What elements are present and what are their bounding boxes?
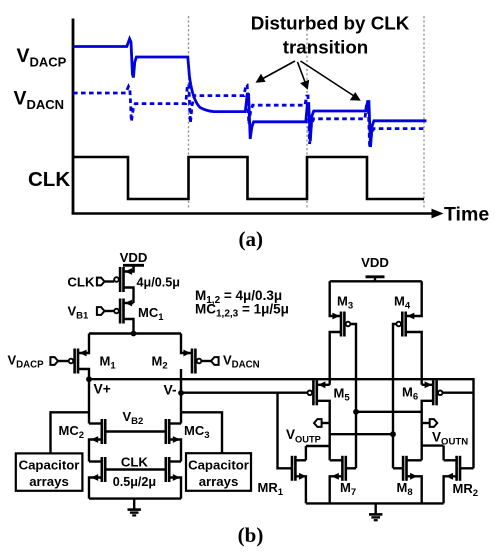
- waveform CLK (black): [73, 157, 424, 199]
- wire right CLK-NMOS drain stub: [169, 460, 181, 462]
- wire M1 drain to V+: [78, 369, 89, 379]
- wire tail node horizontal: [89, 332, 181, 334]
- wire MC1 drain to tail node: [124, 319, 134, 334]
- junction node V+: [86, 376, 92, 382]
- wire VDD stem (left): [132, 265, 134, 271]
- waveform V_DACP (solid blue): [73, 39, 427, 147]
- svg-text:CLK: CLK: [28, 168, 70, 191]
- transistor M2: [183, 349, 201, 374]
- svg-text:V-: V-: [164, 383, 177, 398]
- wire MC1 source stub: [124, 302, 134, 304]
- wire M6 drain down to VOUTN: [422, 401, 434, 461]
- svg-text:(a): (a): [239, 227, 264, 251]
- port VDACP: [50, 357, 58, 365]
- svg-text:MC1,2,3 = 1μ/5μ: MC1,2,3 = 1μ/5μ: [195, 302, 289, 320]
- wire to right capacitor array: [181, 412, 222, 453]
- wire V- branch to MR1 gate: [278, 393, 293, 469]
- svg-text:Time: Time: [444, 204, 489, 226]
- transistor CLK tail switch left (0.5u/2u): [91, 457, 105, 482]
- wire VDD stem (right): [374, 277, 376, 282]
- svg-text:0.5μ/2μ: 0.5μ/2μ: [113, 475, 156, 489]
- wire CLK gate link: [105, 468, 166, 470]
- svg-text:arrays: arrays: [29, 474, 69, 489]
- svg-text:Capacitor: Capacitor: [19, 458, 80, 473]
- wire VDACN port to M2 gate: [201, 360, 211, 362]
- wire M6 gate to V+ line: [443, 392, 474, 394]
- svg-text:VDACP: VDACP: [17, 45, 67, 70]
- port VOUTN: [430, 419, 438, 427]
- wire MC2 drain stub: [89, 422, 102, 424]
- svg-text:(b): (b): [238, 523, 264, 547]
- gridline t1: [188, 16, 190, 208]
- wire M8 drain stub: [407, 459, 422, 461]
- svg-text:M8: M8: [397, 480, 413, 498]
- wire M8 gate stub: [393, 467, 403, 469]
- transistor MC1: [114, 299, 132, 324]
- wire left CLK-NMOS source to rail: [89, 478, 102, 499]
- wire M7 source to rail: [330, 476, 343, 503]
- transistor MC2: [91, 419, 105, 444]
- svg-text:MR1: MR1: [258, 480, 284, 498]
- wire VOUTP jog: [306, 445, 330, 447]
- ground (right): [369, 503, 382, 520]
- wire left CLK-NMOS drain stub: [89, 460, 102, 462]
- power VDD symbol (right): [366, 275, 385, 278]
- wire MR1 drain stub: [295, 459, 306, 461]
- transistor M8: [403, 456, 417, 481]
- transistor MC3: [166, 419, 180, 444]
- wire M7 drain stub: [330, 459, 343, 461]
- wire CLK-PMOS source to VDD: [124, 265, 134, 271]
- svg-text:VDD: VDD: [361, 255, 389, 270]
- wire CLK port to gate: [105, 280, 115, 282]
- transistor M1: [69, 349, 87, 374]
- svg-text:CLK: CLK: [121, 455, 149, 470]
- wire M3 drain to M5 source: [330, 332, 341, 385]
- junction tail node: [131, 331, 137, 337]
- svg-text:V+: V+: [94, 382, 111, 397]
- wire VDD rail (right): [330, 280, 422, 282]
- wire MR2 drain riser: [442, 446, 444, 461]
- y axis: [72, 19, 75, 214]
- block left capacitor array: [16, 453, 83, 490]
- svg-text:MC1: MC1: [138, 305, 164, 323]
- wire VOUTN port stub: [422, 422, 430, 424]
- svg-text:VB2: VB2: [123, 409, 144, 427]
- svg-text:MC3: MC3: [184, 423, 210, 441]
- svg-text:VDACN: VDACN: [14, 88, 65, 113]
- wire M2 drain down V- vertical: [180, 369, 182, 424]
- svg-text:VB1: VB1: [68, 304, 90, 322]
- svg-text:M1: M1: [100, 354, 117, 372]
- svg-text:VOUTP: VOUTP: [286, 427, 321, 444]
- svg-text:MR2: MR2: [453, 481, 479, 499]
- wire MR1 source to rail: [295, 476, 306, 503]
- wire M4 gate to VOUTP node: [330, 433, 393, 435]
- wire to left capacitor array: [51, 412, 90, 453]
- transistor M4: [396, 312, 414, 337]
- svg-text:CLK: CLK: [67, 274, 95, 289]
- gridline t3: [423, 16, 425, 208]
- wire M3 source to VDD rail: [330, 281, 341, 316]
- wire M8 source to rail: [407, 476, 422, 503]
- svg-text:transition: transition: [283, 37, 369, 58]
- svg-text:M5: M5: [334, 386, 351, 404]
- junction M3-gate cross wire: [353, 409, 359, 415]
- transistor CLK tail switch right: [166, 457, 180, 482]
- svg-text:M2: M2: [152, 354, 168, 372]
- port CLK (top): [97, 278, 105, 286]
- wire M5 source stub: [317, 384, 330, 386]
- svg-text:VDACP: VDACP: [8, 353, 45, 371]
- block right capacitor array: [186, 453, 251, 491]
- annotation arrow 2: [298, 62, 310, 90]
- wire MR2 source to rail: [444, 476, 457, 503]
- svg-text:Disturbed by CLK: Disturbed by CLK: [251, 13, 410, 34]
- time axis with arrow: [72, 209, 444, 219]
- wire right CLK-NMOS source to rail: [169, 478, 181, 499]
- svg-text:4μ/0.5μ: 4μ/0.5μ: [137, 275, 180, 289]
- wire MC2 source down: [89, 440, 102, 462]
- svg-text:VDACN: VDACN: [223, 353, 260, 371]
- transistor M5: [308, 380, 326, 405]
- wire M5 drain down to VOUTP: [317, 401, 330, 461]
- wire VOUTN jog: [422, 444, 444, 446]
- transistor M7: [332, 456, 346, 481]
- junction M4-gate cross wire: [390, 431, 396, 437]
- wire CLK-PMOS drain to MC1 source: [124, 288, 134, 304]
- wire M4 source to VDD rail: [406, 281, 422, 316]
- wire M7 gate stub: [346, 467, 356, 469]
- wire MR2 drain stub: [444, 459, 457, 461]
- port VOUTP: [314, 419, 322, 427]
- power VDD symbol (left): [123, 264, 144, 267]
- svg-text:Capacitor: Capacitor: [188, 458, 249, 473]
- wire MC3 source down: [169, 440, 181, 462]
- wire M6 source stub: [422, 384, 434, 386]
- svg-text:arrays: arrays: [199, 474, 239, 489]
- annotation arrow 3: [301, 61, 361, 101]
- wire V+ down to MC2: [88, 379, 90, 423]
- gridline t2: [306, 16, 308, 208]
- wire M4 drain to M6 source: [406, 332, 422, 385]
- wire right ground rail: [306, 502, 444, 504]
- svg-text:M6: M6: [402, 385, 418, 403]
- transistor M3: [332, 312, 350, 337]
- wire M3 gate to VOUTN node: [356, 411, 422, 413]
- wire M3 gate down (cross-couple): [350, 324, 356, 468]
- annotation arrow 1: [256, 61, 296, 83]
- wire MR2 gate stub: [460, 467, 474, 469]
- transistor MR2: [446, 456, 460, 481]
- wire VOUTP port stub: [322, 422, 330, 424]
- wire VDACP port to M1 gate: [58, 360, 69, 362]
- wire M2 source to tail: [181, 334, 192, 354]
- svg-text:VDD: VDD: [120, 250, 148, 265]
- svg-text:M7: M7: [340, 480, 356, 498]
- svg-text:M3: M3: [337, 294, 353, 312]
- wire MR1 drain riser: [305, 446, 307, 460]
- wire V+ rail to second stage: [89, 379, 474, 468]
- port VB1: [97, 307, 105, 315]
- junction node V-: [178, 390, 184, 396]
- wire VB1 port to MC1 gate: [105, 310, 115, 312]
- wire V- to M5 gate: [181, 392, 308, 394]
- port VDACN: [211, 357, 219, 365]
- wire left ground rail: [89, 497, 181, 499]
- wire MC3 drain stub: [169, 422, 181, 424]
- waveform V_DACN (dashed blue): [73, 85, 425, 149]
- svg-text:M4: M4: [394, 294, 411, 312]
- svg-text:MC2: MC2: [59, 423, 85, 441]
- wire VB2 gate link: [105, 430, 166, 432]
- transistor CLK-switch PMOS (4u/0.5u): [114, 267, 132, 292]
- wire M4 gate down (cross-couple): [393, 324, 396, 468]
- ground (left): [128, 499, 141, 516]
- transistor M6: [425, 380, 443, 405]
- transistor MR1: [292, 456, 306, 481]
- wire M1 source to tail: [78, 334, 89, 354]
